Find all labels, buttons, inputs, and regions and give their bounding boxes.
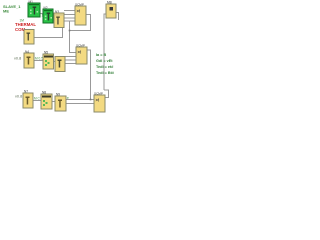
wire N to M <box>52 101 55 103</box>
svg-text:>!: >! <box>77 9 81 14</box>
wire thermal out <box>34 27 63 38</box>
block T thermal <box>24 30 34 45</box>
wire G to E line1 <box>65 56 76 58</box>
svg-text:>!: >! <box>78 50 82 55</box>
wire P to N <box>33 100 41 102</box>
block N yellow scope <box>41 91 52 110</box>
background <box>0 0 120 114</box>
wires row1 <box>33 11 119 104</box>
block B green scope <box>43 6 53 23</box>
block D SCMP subsystem <box>75 3 86 26</box>
svg-text:M 0.5: M 0.5 <box>35 57 43 61</box>
wire branch down to E <box>70 21 77 53</box>
block C yellow dagger <box>54 10 64 28</box>
annotation SLAVE_1 ME <box>3 4 21 14</box>
wire F to G <box>54 61 56 63</box>
block F yellow scope <box>43 51 54 70</box>
wire D feedback loop <box>70 15 91 31</box>
block E SCMP subsystem <box>76 44 87 65</box>
svg-text:e: e <box>67 96 69 100</box>
block P yellow dagger <box>23 90 33 109</box>
wire E out down <box>87 50 91 100</box>
wire G to E line2 <box>65 59 76 61</box>
svg-text:GdI = vEt: GdI = vEt <box>96 59 113 63</box>
junction dot 2 <box>90 99 92 101</box>
wire M to L line1 <box>66 99 94 101</box>
block G yellow dagger <box>55 57 65 72</box>
block M yellow dagger <box>55 93 66 112</box>
block L SCMP subsystem <box>94 92 105 113</box>
svg-text:v0.8: v0.8 <box>14 56 21 60</box>
wire C to D line1 <box>64 10 75 12</box>
svg-text:TedI = et#: TedI = et# <box>96 65 114 69</box>
wire C to D line3 <box>64 17 75 19</box>
wire G to E line3 <box>65 63 76 65</box>
svg-text:v0.8: v0.8 <box>15 94 22 98</box>
svg-text:>!: >! <box>96 98 100 103</box>
block I top right <box>106 1 116 19</box>
block A green scope <box>28 0 40 17</box>
svg-text:ME: ME <box>3 9 9 14</box>
svg-text:M C: M C <box>34 97 41 101</box>
annotation THERMAL COM <box>15 22 36 32</box>
wire C to D line2 <box>64 13 75 15</box>
wire I out <box>116 13 119 21</box>
wire C to D line4 <box>64 20 75 22</box>
wire A to B <box>40 13 43 15</box>
annotation right green text <box>96 53 115 75</box>
svg-text:Ia = B: Ia = B <box>96 53 106 57</box>
svg-text:TedI = Bt#: TedI = Bt# <box>96 71 115 75</box>
wire L out up <box>104 90 109 98</box>
wire H to F <box>34 60 43 62</box>
junction dot 1 <box>69 30 71 32</box>
wire B to C <box>53 17 54 19</box>
block H yellow dagger <box>24 50 34 68</box>
wire to I input <box>104 14 106 90</box>
wire M to L line2 <box>66 103 94 105</box>
